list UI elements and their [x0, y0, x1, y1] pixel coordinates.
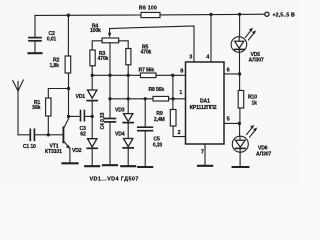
resistor R4 potentiometer	[90, 23, 194, 62]
diode VD4	[115, 132, 133, 166]
diode VD1	[76, 90, 98, 139]
resistor R7	[139, 68, 186, 78]
wire collector node vertical	[68, 73, 70, 119]
ground below C2	[29, 52, 42, 54]
terminal +2,5..5V	[265, 12, 295, 18]
node W1 at C5	[144, 97, 147, 100]
node bus-R5-VD3 junction	[127, 74, 130, 77]
transistor VT1	[45, 119, 70, 163]
node detector bus left dot	[91, 74, 94, 77]
LED VD5	[231, 14, 264, 74]
ground below VD4	[121, 165, 135, 167]
diode VD3	[115, 107, 133, 138]
resistor R1	[32, 98, 51, 116]
ground at VT1 emitter	[62, 162, 77, 164]
node pin5 junction	[238, 122, 241, 125]
wire top supply rail	[35, 14, 265, 15]
node pin6 junction	[238, 72, 241, 75]
node junction rail-VD5	[238, 13, 241, 16]
capacitor C1	[23, 129, 48, 150]
pin 7 wire	[204, 144, 206, 165]
wire R1 feedback branch	[48, 89, 68, 99]
wire VD3 column	[127, 75, 129, 113]
resistor R9	[154, 110, 186, 137]
resistor R8	[149, 87, 186, 101]
wire detector bus	[92, 74, 140, 76]
wire R1 bottom to base line	[47, 116, 49, 135]
capacitor C2	[29, 15, 56, 52]
pin 6 wire	[224, 73, 240, 75]
node W1 at VD3 column	[127, 97, 130, 100]
resistor R6	[139, 6, 160, 18]
paper texture	[0, 0, 1, 1]
resistor R10	[238, 74, 257, 124]
diode VD2	[72, 139, 97, 166]
ground below VD2	[85, 165, 99, 167]
node junction rail-pin4	[209, 13, 212, 16]
wire C4 column	[109, 43, 111, 118]
wire R2 drop from rail	[67, 15, 69, 56]
capacitor C5	[138, 99, 163, 166]
node pin8 wire to R9 column	[171, 74, 174, 77]
op-amp chip DA1 KR1112PP2	[186, 62, 225, 144]
ground below VD6	[233, 166, 249, 168]
node pin1 wire to R9 column	[171, 97, 174, 100]
node collector-C3 junction	[67, 115, 70, 118]
resistor R2	[50, 56, 71, 73]
pin 4 wire	[210, 14, 212, 62]
antenna WA1	[13, 80, 30, 135]
resistor R5	[126, 45, 152, 76]
node junction rail-R2	[67, 14, 70, 17]
node W1 at C4 column	[108, 97, 111, 100]
LED VD6	[232, 123, 271, 165]
ground below pin 7	[198, 165, 212, 167]
ground below C4	[103, 164, 117, 166]
resistor R3	[90, 50, 109, 75]
wire base	[48, 134, 63, 136]
ground below C5	[138, 166, 152, 168]
node bus-R4wiper-C4 junction	[108, 74, 111, 77]
wire R9 column	[172, 75, 174, 109]
node C3 to diode column junction	[91, 115, 94, 118]
capacitor C4	[100, 112, 116, 164]
capacitor C3	[69, 111, 93, 138]
wire W1 lower bus	[110, 98, 153, 100]
node base junction	[47, 133, 50, 136]
pin 5 wire	[224, 122, 239, 124]
wire VD1-VD2 column top	[91, 75, 93, 90]
node R2-R1-collector junction	[67, 87, 70, 90]
